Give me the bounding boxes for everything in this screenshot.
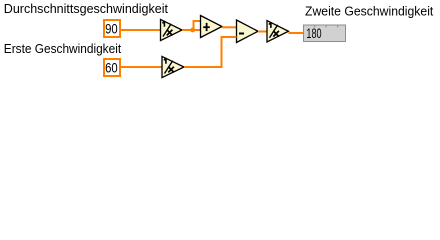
reciprocal function T1 (1/x): [161, 19, 183, 40]
add function (+): [201, 16, 223, 38]
label Zweite Geschwindigkeit: [305, 4, 434, 18]
label Durchschnittsgeschwindigkeit: [4, 1, 169, 16]
wire junction dot: [190, 28, 195, 33]
svg-text:180: 180: [306, 25, 322, 42]
svg-text:Zweite Geschwindigkeit: Zweite Geschwindigkeit: [305, 4, 434, 18]
wire from T1 to add node: [182, 29, 201, 31]
label Erste Geschwindigkeit: [4, 42, 122, 57]
svg-text:Erste Geschwindigkeit: Erste Geschwindigkeit: [4, 42, 122, 57]
svg-text:Durchschnittsgeschwindigkeit: Durchschnittsgeschwindigkeit: [4, 1, 169, 16]
wire from add to subtract: [222, 26, 237, 28]
wire from subtract to reciprocal T2: [258, 31, 267, 33]
wire from 60 control to reciprocal T3: [121, 66, 162, 68]
wire vertical segment up toward subtract: [221, 37, 223, 68]
svg-text:90: 90: [105, 20, 118, 36]
numeric control 60 (Erste Geschwindigkeit terminal): [104, 59, 120, 76]
wire branch horizontal into add top input: [193, 20, 201, 22]
subtract function (-): [237, 20, 259, 43]
reciprocal function T2 (1/x): [267, 21, 289, 42]
wire horizontal segment into subtract bottom input: [221, 36, 237, 38]
reciprocal function T3 (1/x): [162, 56, 184, 77]
numeric control 90 (Durchschnittsgeschwindigkeit terminal): [104, 20, 120, 37]
wire from 90 control to reciprocal T1: [121, 29, 161, 31]
numeric indicator 180 (Zweite Geschwindigkeit terminal): [304, 25, 346, 42]
svg-text:60: 60: [105, 59, 118, 75]
wire from T2 to indicator 180: [289, 32, 304, 34]
wire branch vertical up from junction: [193, 21, 195, 30]
wire from T3 tip going right: [184, 66, 223, 68]
